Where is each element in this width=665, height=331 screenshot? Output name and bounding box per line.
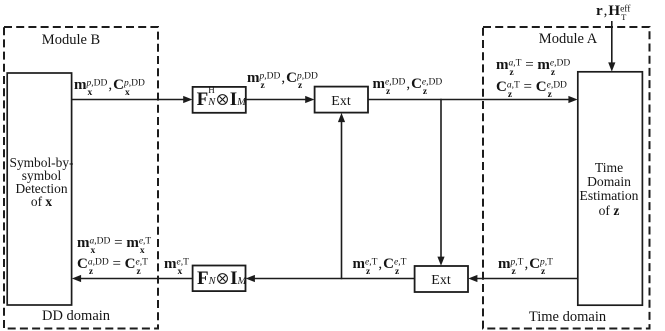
label: Time domain <box>518 309 618 326</box>
text: F_N^H otimes I_M (top box) <box>197 89 245 111</box>
text: Time Domain Estimation of z <box>577 161 641 217</box>
label: m_z^eDD, C_z^eDD <box>373 76 443 93</box>
label: m_x^aDD = m_x^eT <box>77 235 151 252</box>
wire: bottom Ext box to F_N box <box>255 278 415 280</box>
label: m_z^pDD, C_z^pDD <box>247 70 318 87</box>
label: m_x^eT <box>164 256 189 273</box>
text: Symbol-by-symbol Detection of x <box>9 156 74 209</box>
label: C_z^aT = C_z^eDD <box>496 79 567 96</box>
label: DD domain <box>26 308 126 325</box>
wire: detection box to F_N^H box (top path) <box>72 99 185 101</box>
Module A dashed container <box>483 27 650 329</box>
text: Ext (bottom) <box>414 273 468 289</box>
block: Symbol-by-symbol Detection of x <box>7 73 71 305</box>
label: m_z^aT = m_z^eDD <box>496 57 570 74</box>
block U1: F_N^H otimes I_M (top) <box>193 87 246 113</box>
label: Module B title <box>21 32 121 49</box>
Module B dashed container <box>4 27 158 329</box>
wire: input r,H down into Time Domain block <box>611 21 613 64</box>
block: Ext (top) <box>315 87 368 113</box>
wire: branch down from top path into bottom Ext box <box>440 99 442 259</box>
wire: F_N box to detection block <box>81 278 193 280</box>
block: Ext (bottom) <box>415 266 468 292</box>
label: m_z^eT, C_z^eT <box>353 256 407 273</box>
label: input r, H_T^eff <box>596 3 630 20</box>
block: Time Domain Estimation of z <box>578 72 643 305</box>
block U2: F_N otimes I_M (bottom) <box>193 266 246 292</box>
label: C_z^aDD = C_z^eT <box>77 256 148 273</box>
wire: Time Domain block to bottom Ext box (bottom path) <box>477 278 578 280</box>
text: Ext (top) <box>314 94 368 110</box>
text: F_N otimes I_M (bottom box) <box>197 268 245 290</box>
wire: branch up from bottom path into top Ext box <box>341 121 343 280</box>
label: m_z^pT, C_z^pT <box>498 256 553 273</box>
label: m_x^pDD, C_x^pDD <box>74 77 145 94</box>
wire: top Ext box to Time Domain block <box>368 99 570 101</box>
label: Module A title <box>518 31 618 48</box>
wire: F_N^H box to top Ext box <box>246 99 307 101</box>
